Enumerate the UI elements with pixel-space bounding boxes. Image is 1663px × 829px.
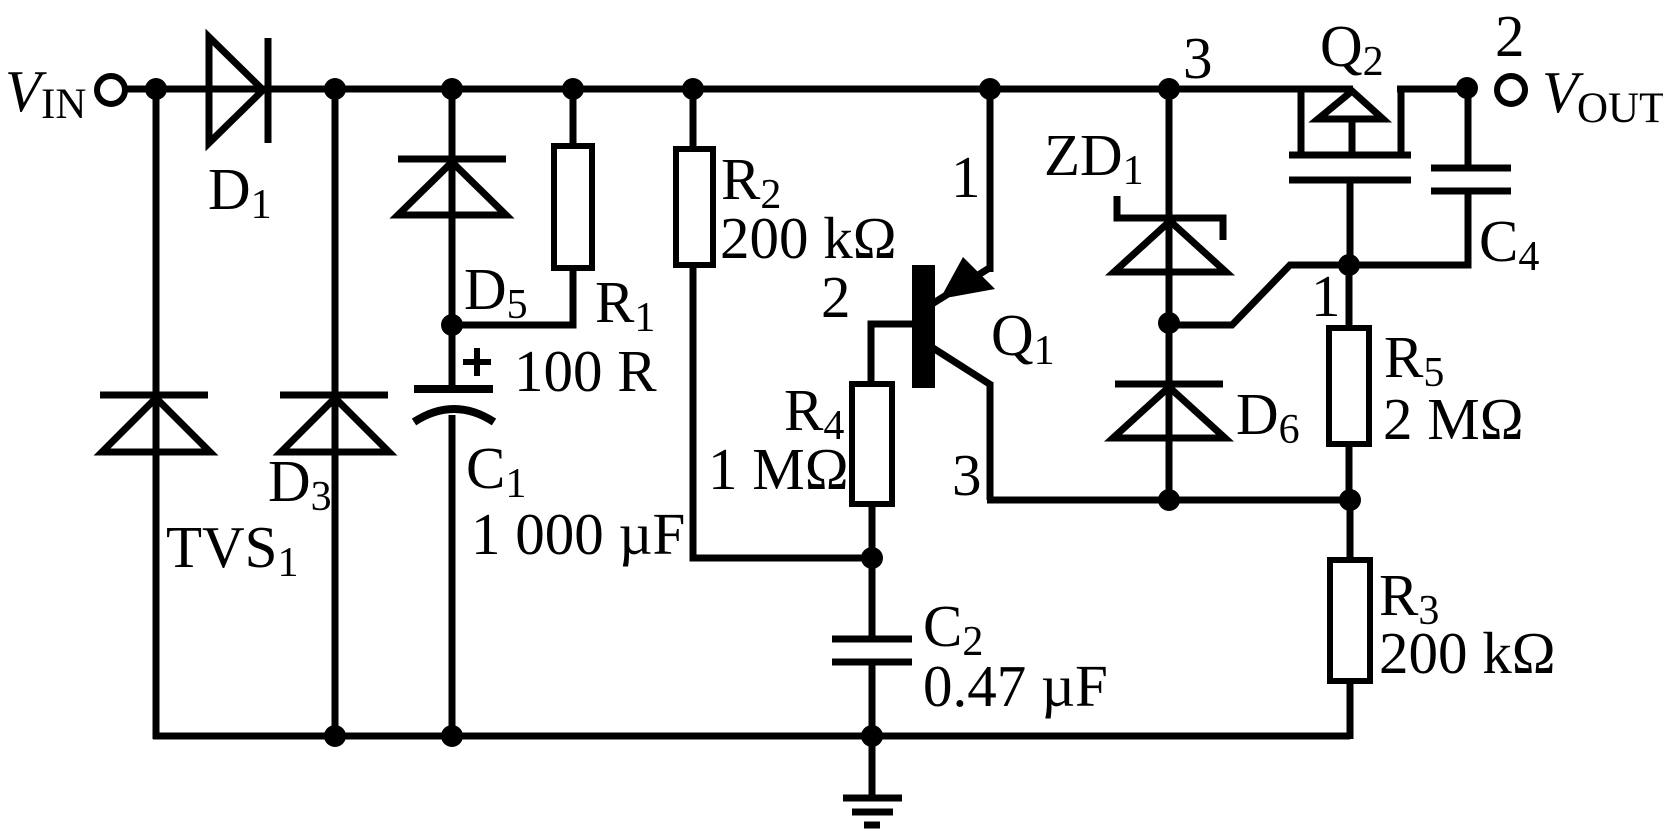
resistor R3 xyxy=(1330,560,1370,681)
zener diode ZD1 xyxy=(1114,196,1226,272)
node dot VIN xyxy=(145,78,167,100)
svg-text:OUT: OUT xyxy=(1577,85,1663,132)
wire C4 bottom stem to gate node xyxy=(1349,191,1468,265)
resistor R5 xyxy=(1329,328,1369,444)
svg-text:1 MΩ: 1 MΩ xyxy=(708,436,849,502)
node dot D6 emitter junction xyxy=(1158,489,1180,511)
wire C1 lower lead xyxy=(449,415,456,736)
node dot ZD1 D6 junction xyxy=(1158,312,1180,334)
wire Q1 base lead xyxy=(871,324,912,384)
resistor R2 xyxy=(676,149,713,265)
svg-text:1: 1 xyxy=(1311,263,1341,329)
svg-text:3: 3 xyxy=(1183,25,1213,91)
capacitor C4 xyxy=(1431,168,1511,191)
node dot R5 R3 junction xyxy=(1339,489,1361,511)
node dot Q1 collector top xyxy=(979,78,1001,100)
node dot ZD1 top xyxy=(1158,78,1180,100)
svg-text:1: 1 xyxy=(951,144,981,210)
wire Q2 drain to VOUT xyxy=(1397,86,1468,93)
wire Q2 gate stem xyxy=(1347,183,1354,265)
wire R2 bottom lead to R4 node xyxy=(693,265,872,558)
wire Q2 drain lead xyxy=(1398,86,1405,155)
diode D5 xyxy=(398,159,506,215)
node dot D3 bottom xyxy=(324,725,346,747)
node dot R1 top xyxy=(562,78,584,100)
node dot D3 top xyxy=(324,78,346,100)
diode D1 xyxy=(209,37,268,143)
svg-text:200 kΩ: 200 kΩ xyxy=(1379,620,1556,686)
wire ZD1 D6 branch xyxy=(1166,89,1173,500)
wire emitter horizontal to R5 node xyxy=(987,497,1350,504)
svg-text:100 R: 100 R xyxy=(514,338,657,404)
wire Q1 collector lead xyxy=(987,89,994,272)
capacitor C1 electrolytic xyxy=(414,389,494,422)
svg-text:200 kΩ: 200 kΩ xyxy=(720,205,897,271)
resistor R1 xyxy=(554,146,592,268)
svg-text:0.47 µF: 0.47 µF xyxy=(923,653,1108,719)
terminal VIN xyxy=(97,76,125,104)
wire C2 bottom lead xyxy=(869,662,876,736)
svg-text:2: 2 xyxy=(1495,3,1525,69)
node dot C1 bottom xyxy=(441,725,463,747)
diode D3 xyxy=(280,395,389,452)
ground xyxy=(843,798,902,825)
plus sign of C1 xyxy=(463,348,491,376)
svg-text:1 000 µF: 1 000 µF xyxy=(471,501,685,567)
wire R5 bottom lead xyxy=(1346,444,1353,500)
diode D6 xyxy=(1113,384,1225,438)
transistor Q1 xyxy=(912,257,995,388)
node dot D5 top xyxy=(441,78,463,100)
TVS diode TVS1 xyxy=(100,395,210,452)
node dot VOUT xyxy=(1456,77,1478,99)
mosfet Q2 xyxy=(1289,91,1411,180)
terminal VOUT xyxy=(1497,76,1525,104)
node dot C2 ground junction xyxy=(861,725,883,747)
wire top rail xyxy=(126,86,1353,93)
wire Q2 body stem xyxy=(1349,119,1356,155)
wire R4 bottom lead xyxy=(869,504,876,639)
svg-text:2 MΩ: 2 MΩ xyxy=(1383,386,1524,452)
resistor R4 xyxy=(852,384,892,504)
svg-text:3: 3 xyxy=(952,442,982,508)
wire R5 top lead xyxy=(1346,265,1353,328)
wire R3 bottom lead xyxy=(1347,681,1354,739)
wire Q1 emitter diagonal xyxy=(933,348,991,385)
node dot R2 top xyxy=(682,78,704,100)
wire D5 C1 branch xyxy=(449,89,456,389)
wire C4 top stem xyxy=(1465,89,1472,168)
wire R1 top lead xyxy=(570,89,577,146)
wire R3 top lead xyxy=(1347,500,1354,560)
wire TVS1 branch xyxy=(153,89,160,739)
wire ground stem xyxy=(869,736,876,795)
node dot gate node xyxy=(1338,254,1360,276)
wire ZD1 node to gate node xyxy=(1169,265,1349,325)
wire R1 bottom lead to D5 node xyxy=(452,268,573,325)
wire R2 top lead xyxy=(690,89,697,149)
wire Q1 emitter vertical xyxy=(987,382,994,500)
svg-text:2: 2 xyxy=(821,264,851,330)
node dot D5 R1 junction xyxy=(441,314,463,336)
node dot R4 R2 junction xyxy=(861,547,883,569)
wire bottom rail xyxy=(153,733,1350,740)
wire D3 branch xyxy=(332,89,339,736)
wire Q2 source lead xyxy=(1298,89,1305,155)
capacitor C2 xyxy=(832,639,912,662)
